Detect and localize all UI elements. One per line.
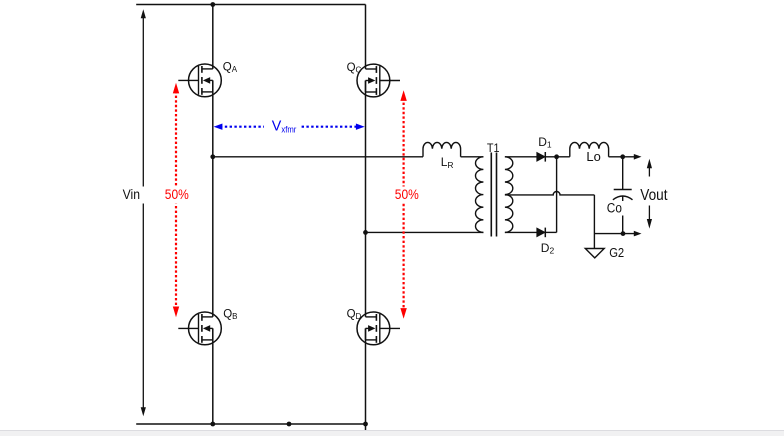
wire: output bottom rail	[594, 233, 634, 235]
arrow: output plus terminal	[634, 154, 642, 160]
wire: center tap with hop over D1-D2 wire	[505, 191, 595, 194]
wire: LR to transformer primary	[461, 156, 484, 158]
wire: right rail segments	[365, 5, 367, 433]
wire: tap corner down to ground	[593, 195, 595, 249]
node: output top	[620, 154, 625, 159]
node: left leg midpoint	[210, 154, 215, 159]
wire: Co to bottom rail	[622, 196, 624, 233]
node: bottom-right junction	[363, 422, 368, 427]
ground G2 symbol	[585, 249, 604, 258]
inductor LR	[423, 142, 461, 156]
transistor QA	[178, 64, 221, 97]
red 50% arrow left	[173, 83, 179, 318]
capacitor Co curved plate	[613, 196, 633, 200]
node: stray junction dot on bottom rail	[287, 422, 292, 427]
top supply rail	[136, 4, 365, 6]
wire: left rail segments	[212, 5, 214, 425]
transistor QC	[357, 64, 400, 97]
svg-text:50%: 50%	[395, 187, 419, 202]
svg-text:Vin: Vin	[123, 187, 140, 202]
svg-text:Lo: Lo	[586, 150, 600, 164]
dimension arrow Vout	[647, 159, 652, 229]
svg-text:T1: T1	[487, 141, 500, 155]
svg-text:Co: Co	[607, 201, 622, 216]
wire: primary bottom to right leg midpoint	[366, 231, 484, 233]
svg-text:G2: G2	[609, 245, 624, 260]
red 50% arrow right	[400, 90, 406, 319]
transistor QB	[178, 312, 221, 345]
dimension arrow Vin	[141, 9, 146, 416]
bottom supply rail	[136, 423, 365, 425]
wire: secondary bottom to D2	[505, 231, 537, 233]
footer strip	[0, 431, 784, 437]
wire: D1 cathode to junction and Lo	[545, 156, 570, 158]
wire: secondary top to D1	[505, 156, 537, 158]
mask behind Co label	[605, 201, 624, 216]
node: top rail / left rail junction	[210, 2, 215, 7]
mask behind left 50% label	[162, 187, 192, 204]
inductor Lo	[570, 142, 609, 156]
diode D2	[537, 228, 545, 236]
mask behind Vxfmr label	[264, 118, 301, 135]
arrow: output minus terminal	[634, 231, 642, 237]
mask behind Vin label	[121, 187, 149, 204]
node: right leg midpoint	[363, 230, 368, 235]
mask behind right 50% label	[392, 187, 422, 204]
wire: D2 cathode to junction corner	[545, 231, 556, 233]
diode D1	[537, 153, 545, 161]
transformer T1 core	[490, 153, 492, 237]
node: output bottom	[621, 231, 626, 236]
transformer T1 secondary winding	[505, 157, 513, 233]
transformer T1 primary winding	[476, 157, 484, 233]
svg-text:50%: 50%	[165, 187, 189, 202]
blue dimension arrow Vxfmr	[214, 124, 365, 130]
transistor QD	[357, 312, 400, 345]
mask behind Vout label	[638, 185, 671, 205]
node: bottom-left junction	[210, 422, 215, 427]
wire: left leg midpoint to LR	[213, 156, 423, 158]
capacitor Co top plate	[614, 189, 632, 191]
node: D1/D2 junction	[554, 154, 559, 159]
svg-text:Vout: Vout	[640, 187, 668, 204]
wire: D1 junction down to D2 cathode	[556, 157, 558, 233]
wire: Lo to output node	[609, 156, 635, 158]
wire: output node down to Co	[622, 157, 624, 190]
